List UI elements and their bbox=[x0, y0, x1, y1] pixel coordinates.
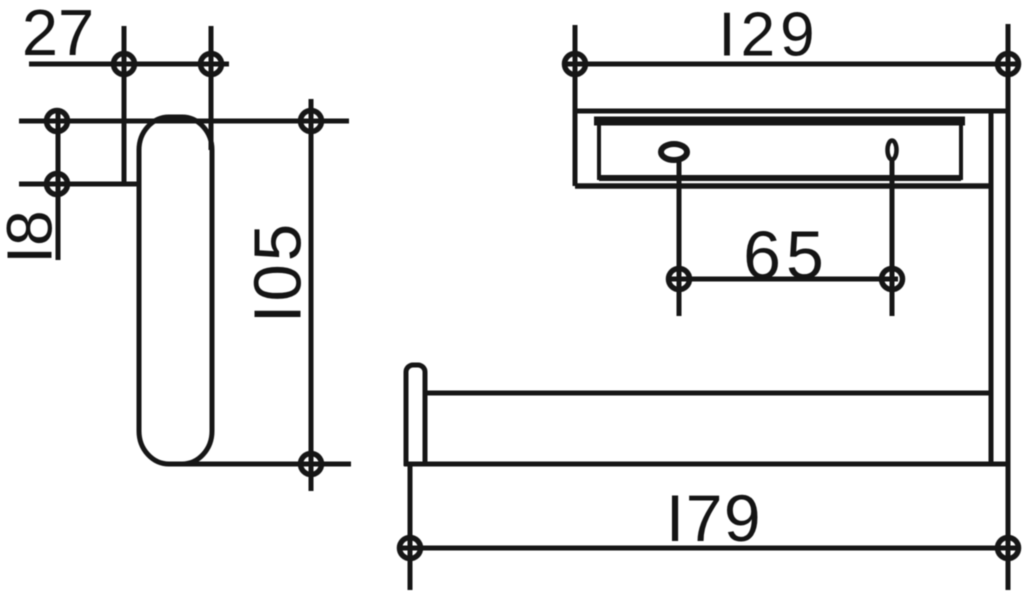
wall plate top edge bbox=[575, 109, 1008, 114]
dimension line 27 bbox=[29, 62, 229, 67]
extension line left of 27 bbox=[122, 26, 127, 183]
svg-text:27: 27 bbox=[22, 0, 94, 69]
dimension point circle at 27 right bbox=[201, 54, 222, 75]
extension line 179 left bbox=[408, 462, 413, 590]
holder capsule outline (left view) bbox=[139, 117, 212, 464]
dimension point circle 105 bottom bbox=[301, 454, 322, 475]
dimension point circle 129 left bbox=[565, 54, 586, 75]
arm top edge bbox=[425, 391, 991, 396]
extension line 105 bbox=[309, 99, 314, 491]
extension line 129 left / bracket left edge bbox=[573, 25, 578, 186]
dimension point circle at 27 left bbox=[114, 54, 135, 75]
dimension point circle 65 left bbox=[669, 269, 690, 290]
dimension line 129 bbox=[566, 62, 1016, 67]
dimension point circle 129 right bbox=[998, 54, 1019, 75]
dimension point circle 179 left bbox=[400, 538, 421, 559]
recess bottom edge bbox=[599, 175, 961, 181]
arm front tab bbox=[406, 365, 425, 466]
left screw slot bbox=[661, 144, 687, 160]
svg-text:I8: I8 bbox=[0, 210, 65, 263]
extension line 18 bbox=[56, 112, 61, 260]
wall plate bottom edge bbox=[575, 183, 991, 189]
dimension line bottom of 105 bbox=[168, 462, 351, 467]
bracket rear vertical bbox=[989, 111, 994, 464]
dimension point circle 65 right bbox=[882, 269, 903, 290]
extension line 65 left bbox=[677, 157, 682, 316]
right screw slot bbox=[888, 141, 897, 160]
dimension point circle 105 top bbox=[301, 111, 322, 132]
dimension point circle 18 top bbox=[47, 111, 68, 132]
svg-text:I79: I79 bbox=[666, 481, 762, 555]
svg-text:I29: I29 bbox=[718, 1, 819, 70]
wall plate inner recess rectangle bbox=[599, 123, 961, 178]
dimension line 65 bbox=[671, 277, 898, 282]
dimension line top of 18/105 bbox=[19, 119, 349, 124]
wall plate front thick bar bbox=[594, 117, 965, 126]
dimension line 179 bbox=[398, 546, 1016, 551]
dimension point circle 179 right bbox=[998, 538, 1019, 559]
arm bottom edge bbox=[404, 462, 1008, 467]
extension line 65 right bbox=[890, 158, 895, 316]
dimension line bottom of 18 bbox=[19, 182, 138, 187]
svg-text:65: 65 bbox=[743, 217, 829, 293]
extension line 129 right / wall line bbox=[1006, 24, 1011, 590]
extension line right of 27 bbox=[209, 26, 214, 150]
dimension point circle 18 bottom bbox=[47, 174, 68, 195]
svg-text:I05: I05 bbox=[240, 221, 315, 323]
